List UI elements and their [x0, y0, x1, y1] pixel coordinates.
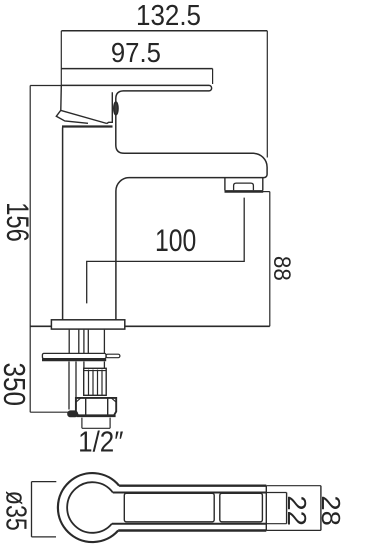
svg-text:22: 22: [282, 495, 310, 525]
svg-text:350: 350: [0, 363, 30, 407]
svg-text:100: 100: [155, 222, 196, 258]
svg-text:156: 156: [0, 202, 35, 242]
svg-text:88: 88: [268, 256, 295, 281]
svg-text:97.5: 97.5: [111, 37, 161, 68]
svg-text:132.5: 132.5: [136, 0, 201, 32]
svg-text:1/2″: 1/2″: [78, 426, 123, 458]
svg-text:ø35: ø35: [0, 491, 32, 531]
svg-text:28: 28: [316, 495, 344, 525]
